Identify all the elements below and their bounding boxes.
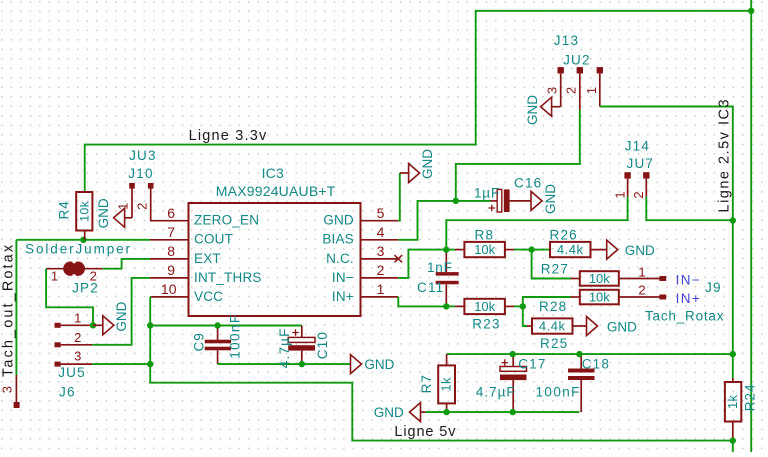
ground at R25: [572, 317, 637, 336]
svg-text:4: 4: [377, 224, 385, 240]
wire pin5 to ground: [398, 173, 400, 221]
resistor R7: [438, 354, 455, 412]
label R23: [472, 316, 500, 331]
wire R7 bottom row: [425, 411, 579, 413]
pin 4 BIAS of IC3: [322, 224, 398, 247]
label R26: [550, 227, 578, 242]
junction IN- node: [443, 246, 449, 252]
svg-text:R27: R27: [541, 262, 569, 277]
svg-text:IN−: IN−: [676, 272, 702, 287]
resistor R23: [455, 299, 514, 314]
svg-text:1k: 1k: [725, 394, 740, 409]
svg-text:2: 2: [134, 203, 149, 210]
wire JU5 pin3 to 5v net: [92, 363, 150, 365]
svg-text:1k: 1k: [439, 377, 454, 392]
connector JU7 pin 2: [631, 172, 650, 198]
svg-text:R24: R24: [742, 383, 757, 411]
capacitor C18: [568, 354, 595, 412]
wire R8 to R26 junction: [514, 249, 551, 251]
svg-text:R28: R28: [539, 299, 567, 314]
svg-text:4.4k: 4.4k: [539, 319, 566, 334]
pin 8 EXT of IC3: [150, 243, 221, 266]
wire IN+ node to R23: [446, 305, 455, 307]
svg-text:JU5: JU5: [58, 365, 86, 380]
connector pin 3 Tach_out_Rotax: [0, 375, 20, 408]
resistor R27: [571, 271, 660, 286]
svg-text:4.7µF: 4.7µF: [476, 384, 516, 399]
ground at R26: [589, 240, 655, 259]
svg-text:GND: GND: [323, 213, 354, 228]
pin 1 IN+ of IC3: [332, 281, 398, 304]
wire JU2 pin2 to BIAS node: [456, 110, 580, 201]
svg-text:2: 2: [631, 191, 646, 198]
label 100nF of C18: [536, 384, 581, 399]
svg-text:8: 8: [167, 243, 175, 259]
ground at JU2 pin 3: [525, 95, 561, 125]
wire IN+ pin1 to R23 row: [398, 297, 446, 307]
svg-text:GND: GND: [420, 149, 435, 179]
label R27: [541, 262, 569, 277]
junction IN+ node: [443, 303, 449, 309]
label R28: [539, 299, 567, 314]
svg-text:Tach_out_Rotax: Tach_out_Rotax: [1, 243, 17, 377]
svg-text:GND: GND: [625, 243, 655, 258]
svg-text:7: 7: [167, 224, 175, 240]
svg-text:GND: GND: [525, 95, 540, 125]
svg-text:3: 3: [0, 386, 15, 393]
svg-text:5: 5: [377, 205, 385, 221]
junction C17 top: [510, 351, 516, 357]
svg-text:1: 1: [612, 191, 627, 198]
label 4.7uF of C17: [476, 384, 516, 399]
capacitor C9: [205, 326, 231, 365]
label C18: [582, 357, 610, 372]
connector JU7 pin 1: [612, 172, 631, 198]
connector JU5 pin 3: [55, 348, 93, 366]
svg-text:R4: R4: [57, 200, 72, 219]
connector JU3 J10 labels: [128, 148, 156, 181]
ground at JU5 pin 1: [93, 301, 129, 334]
svg-text:C11: C11: [417, 280, 444, 295]
svg-text:2: 2: [638, 282, 645, 297]
label Tach_out_Rotax: [1, 243, 17, 377]
connector J10 pin 1: [116, 183, 135, 218]
junction C9 top: [214, 322, 220, 328]
wire C9 bottom row: [218, 363, 351, 365]
junction R4 bottom: [80, 237, 86, 243]
svg-text:JU2: JU2: [563, 53, 591, 68]
label IC3: [262, 165, 284, 181]
junction C17 bottom: [510, 409, 516, 415]
label 4.7uF of C10: [277, 327, 292, 368]
svg-text:R26: R26: [550, 227, 578, 242]
connector J10 pin 2: [134, 183, 153, 221]
svg-text:1: 1: [377, 281, 385, 297]
svg-text:10: 10: [161, 281, 177, 297]
ground at Ligne 5v row: [374, 403, 426, 422]
wire R23 junction to R28: [523, 297, 571, 306]
svg-text:BIAS: BIAS: [322, 232, 354, 247]
label R24: [742, 383, 757, 411]
label Ligne 5v: [394, 424, 456, 440]
svg-text:JU3: JU3: [129, 148, 157, 163]
junction R24 bottom Ligne 5v: [730, 437, 736, 443]
label C11: [417, 280, 444, 295]
svg-text:Ligne 3.3v: Ligne 3.3v: [189, 128, 268, 144]
svg-text:MAX9924UAUB+T: MAX9924UAUB+T: [216, 183, 336, 199]
connector J9 pin 2: [638, 282, 666, 299]
svg-text:ZERO_EN: ZERO_EN: [194, 213, 259, 228]
svg-text:GND: GND: [543, 184, 558, 214]
svg-text:R23: R23: [472, 316, 500, 331]
label JU5: [58, 365, 86, 380]
label C10: [315, 331, 330, 359]
svg-text:100nF: 100nF: [227, 314, 242, 359]
svg-text:100nF: 100nF: [536, 384, 581, 399]
label C16: [514, 176, 542, 191]
label R4: [57, 200, 72, 219]
svg-text:1µF: 1µF: [474, 186, 500, 201]
svg-text:IN−: IN−: [332, 270, 354, 285]
pin 10 VCC of IC3: [150, 281, 223, 304]
pin 3 N.C. of IC3: [326, 243, 398, 266]
resistor R26: [550, 242, 591, 257]
svg-text:2: 2: [377, 262, 385, 278]
node Tach_out_Rotax vertical wire: [15, 240, 17, 375]
svg-text:GND: GND: [607, 319, 637, 334]
svg-text:INT_THRS: INT_THRS: [194, 270, 262, 285]
connector J9 pin 1: [638, 264, 666, 281]
svg-text:3: 3: [74, 348, 81, 363]
svg-text:JU7: JU7: [627, 156, 655, 171]
svg-text:SolderJumper: SolderJumper: [25, 241, 132, 256]
svg-text:J14: J14: [625, 139, 650, 154]
wire JU7 pin1 to IN- node: [446, 197, 627, 250]
wire junction to R25: [523, 306, 527, 326]
svg-text:C17: C17: [518, 357, 546, 372]
wire VCC net vertical and Ligne 5v run: [150, 297, 733, 441]
svg-text:1nF: 1nF: [427, 260, 453, 275]
label R25: [540, 336, 568, 351]
junction C10 bottom: [299, 361, 305, 367]
resistor R8: [455, 242, 514, 257]
svg-text:C18: C18: [582, 357, 610, 372]
svg-text:J10: J10: [128, 166, 153, 181]
label JP2: [72, 280, 99, 295]
capacitor C10 polarized: [288, 326, 315, 365]
resistor R24: [725, 378, 741, 441]
svg-text:C16: C16: [514, 176, 542, 191]
label Ligne 2.5v IC3: [717, 98, 733, 213]
label C9: [191, 332, 206, 351]
no-connect X on pin 3 N.C.: [395, 255, 403, 262]
svg-text:J6: J6: [59, 385, 76, 400]
svg-text:3: 3: [377, 243, 385, 259]
svg-text:4.4k: 4.4k: [557, 242, 584, 257]
pin 2 IN&#8722; of IC3: [332, 262, 398, 285]
junction R8 R26 R27: [528, 246, 534, 252]
wire junction to R27: [532, 250, 571, 279]
pin 6 ZERO_EN of IC3: [150, 205, 259, 228]
svg-text:10k: 10k: [589, 290, 610, 305]
resistor R25: [527, 318, 573, 333]
resistor R4: [76, 192, 92, 240]
junction C18 top: [576, 351, 582, 357]
svg-text:R8: R8: [475, 227, 495, 242]
wire JP2 pin2 to EXT: [103, 259, 150, 269]
svg-text:1: 1: [584, 87, 599, 94]
svg-text:6: 6: [167, 205, 175, 221]
label 1uF of C16: [474, 186, 500, 201]
svg-text:10k: 10k: [474, 299, 495, 314]
svg-text:GND: GND: [96, 198, 111, 228]
svg-text:J9: J9: [705, 280, 722, 295]
wire JU2 pin1 to Ligne 2.5v: [600, 107, 733, 221]
svg-text:Ligne 2.5v IC3: Ligne 2.5v IC3: [717, 98, 733, 213]
label IN- hierarchical: [676, 272, 702, 287]
svg-text:3: 3: [544, 87, 559, 94]
svg-text:10k: 10k: [474, 242, 495, 257]
svg-text:IC3: IC3: [262, 165, 284, 181]
connector JU2 pin 1: [584, 67, 603, 106]
label Tach_Rotax: [645, 308, 724, 323]
junction R23 R28 R25: [520, 303, 526, 309]
svg-text:R25: R25: [540, 336, 568, 351]
svg-text:2: 2: [563, 87, 578, 94]
svg-text:2: 2: [74, 330, 81, 345]
wire IN- pin2 to R8 row: [398, 250, 446, 278]
connector JU2 pin 3: [544, 67, 564, 107]
svg-text:1: 1: [74, 311, 81, 326]
label Ligne 3.3v: [189, 128, 268, 144]
junction Ligne 2.5v: [730, 217, 736, 223]
svg-text:1: 1: [51, 269, 58, 284]
pin 5 GND of IC3: [323, 205, 398, 228]
svg-text:GND: GND: [364, 357, 394, 372]
svg-text:4.7µF: 4.7µF: [277, 327, 292, 368]
junction R7 bottom: [443, 409, 449, 415]
connector JU5 pin 2: [55, 330, 93, 347]
svg-text:R7: R7: [419, 374, 434, 393]
label 100nF of C9: [227, 314, 242, 359]
label IN+ hierarchical: [676, 291, 702, 306]
connector J13 JU2 labels: [554, 33, 591, 67]
solder jumper JP2: [46, 260, 103, 284]
connector JU2 pin 2: [563, 67, 583, 110]
label SolderJumper: [25, 241, 132, 256]
svg-text:COUT: COUT: [194, 232, 233, 247]
wire C17 C18 top row: [447, 353, 733, 355]
svg-text:VCC: VCC: [194, 289, 223, 304]
junction BIAS C16 node: [453, 198, 459, 204]
wire JU7 pin2 to Ligne 2.5v: [646, 197, 733, 221]
label MAX9924UAUB+T: [216, 183, 336, 199]
junction top-right Ligne 3.3v: [748, 8, 754, 14]
svg-text:1: 1: [638, 264, 645, 279]
junction top row to Ligne 2.5v: [730, 351, 736, 357]
svg-text:EXT: EXT: [194, 251, 221, 266]
svg-text:C9: C9: [191, 332, 206, 351]
junction VCC line: [147, 322, 153, 328]
wire COUT row to Tach_out_Rotax: [16, 239, 150, 241]
capacitor C17 polarized: [500, 354, 527, 412]
label J6: [59, 385, 76, 400]
pin 7 COUT of IC3: [150, 224, 233, 247]
svg-text:10k: 10k: [589, 271, 610, 286]
pin 9 INT_THRS of IC3: [150, 262, 262, 285]
svg-text:10k: 10k: [78, 200, 92, 222]
wire IN- node to R8: [446, 249, 455, 251]
junction JU5 pin3 node: [147, 361, 153, 367]
wire BIAS to node: [398, 201, 456, 240]
svg-text:IN+: IN+: [676, 291, 702, 306]
wire R23 to junction: [514, 305, 523, 307]
label C17: [518, 357, 546, 372]
wire node to C16: [456, 200, 491, 202]
resistor R28: [571, 290, 660, 305]
ground at C10 bottom: [351, 355, 395, 374]
ground at J10 pin 1: [96, 198, 132, 228]
svg-text:JP2: JP2: [72, 280, 99, 295]
label 1nF of C11: [427, 260, 453, 275]
svg-text:IN+: IN+: [332, 289, 354, 304]
connector J14 JU7 labels: [625, 139, 654, 172]
svg-text:9: 9: [167, 262, 175, 278]
svg-text:N.C.: N.C.: [326, 251, 354, 266]
svg-text:GND: GND: [114, 301, 129, 331]
svg-text:Ligne 5v: Ligne 5v: [394, 424, 456, 440]
wire below R24 junction: [732, 441, 734, 452]
junction JU5 pin1 ground: [90, 322, 96, 328]
svg-text:Tach_Rotax: Tach_Rotax: [645, 308, 724, 323]
svg-text:C10: C10: [315, 331, 330, 359]
wire JP2 pin1 down to JU5 pin1: [46, 269, 93, 326]
svg-text:GND: GND: [374, 405, 404, 420]
capacitor C16 polarized: [489, 189, 510, 212]
connector JU5 pin 1: [55, 311, 93, 328]
label R8: [475, 227, 495, 242]
wire VCC branch to C9 C10 tops: [150, 325, 302, 327]
capacitor C11: [436, 250, 459, 307]
wire Ligne 2.5v vertical: [732, 220, 734, 378]
ground at IC3 pin 5: [400, 149, 435, 183]
wire JU5 pin2 to INT_THRS: [92, 278, 150, 345]
ground at C16: [510, 184, 558, 214]
label J9: [705, 280, 722, 295]
svg-text:J13: J13: [554, 33, 579, 48]
op-amp U1 IC3 body: [189, 203, 361, 316]
label R7: [419, 374, 434, 393]
